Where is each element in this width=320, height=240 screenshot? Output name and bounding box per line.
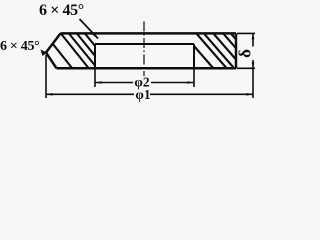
- phi1 right extension line: [252, 68, 254, 98]
- washer body outline right edge: [235, 33, 238, 68]
- phi2 right extension line: [193, 68, 195, 87]
- washer rim lower chamfer edge: [46, 53, 57, 69]
- hatch right block: [194, 33, 236, 68]
- delta dimension arrow down: [252, 62, 255, 68]
- top chamfer leader line: [80, 19, 99, 39]
- phi1 arrow left: [46, 93, 53, 96]
- delta top extension line: [237, 32, 255, 34]
- delta dimension arrow up: [252, 33, 255, 39]
- hole top edge: [95, 43, 194, 45]
- hole left edge: [94, 44, 96, 68]
- phi1 dimension line right segment: [150, 93, 253, 95]
- phi1 dimension line left segment: [46, 93, 134, 95]
- delta bottom extension line: [237, 67, 255, 69]
- vertical centerline: [143, 22, 145, 77]
- svg-text:6 × 45°: 6 × 45°: [0, 39, 39, 54]
- top chamfer leader arrowhead: [92, 32, 98, 39]
- left chamfer leader arrowhead: [41, 50, 48, 57]
- phi1 arrow right: [247, 93, 254, 96]
- hole right edge: [193, 44, 195, 68]
- delta dimension line upper segment: [252, 33, 254, 46]
- phi2 left extension line: [94, 68, 96, 87]
- washer rim upper chamfer edge: [46, 33, 61, 52]
- phi1 left extension line: [45, 55, 47, 98]
- svg-text:δ: δ: [236, 49, 255, 58]
- svg-text:6 × 45°: 6 × 45°: [39, 2, 84, 19]
- delta dimension line lower segment: [252, 60, 254, 68]
- phi2 dimension line left segment: [95, 82, 133, 84]
- hatch left block: [53, 33, 96, 68]
- phi2 dimension line right segment: [151, 82, 194, 84]
- washer body outline top edge: [61, 32, 237, 35]
- svg-text:φ1: φ1: [135, 87, 150, 102]
- phi2 arrow left: [95, 81, 102, 84]
- phi2 arrow right: [188, 81, 195, 84]
- washer body outline bottom edge: [57, 67, 237, 70]
